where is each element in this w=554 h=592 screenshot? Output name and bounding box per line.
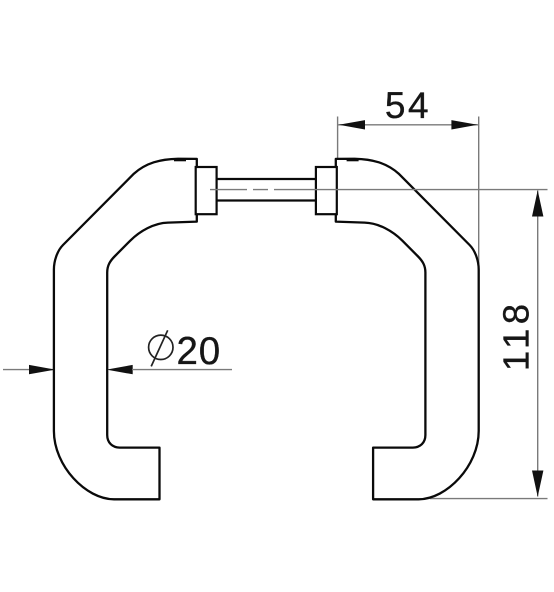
right handle seam tick	[347, 159, 359, 161]
54 dimension arrow right	[451, 120, 477, 129]
118 dimension arrow bottom	[532, 471, 543, 497]
54 dimension line	[338, 124, 478, 126]
54 dimension arrow left	[339, 120, 365, 129]
svg-text:20: 20	[177, 330, 221, 373]
left handle seam tick	[174, 159, 186, 161]
118 bottom extension line	[430, 498, 548, 500]
54 right extension line	[478, 117, 480, 274]
centerline / 118 top extension line	[210, 189, 548, 191]
118 dimension line	[537, 191, 539, 497]
right collar (rose/neck)	[316, 167, 337, 214]
spindle top line	[217, 178, 316, 180]
54 left extension line	[337, 117, 339, 161]
left collar (rose/neck)	[196, 167, 217, 214]
left handle outline	[54, 159, 197, 500]
diameter symbol circle	[149, 335, 173, 359]
svg-text:54: 54	[385, 85, 431, 126]
diameter-20 arrow right (points left at grip right edge)	[107, 365, 133, 374]
diameter-20 arrow left (points right at grip left edge)	[29, 365, 55, 374]
svg-text:118: 118	[496, 299, 537, 371]
diameter-20 dimension line right lead	[132, 369, 232, 371]
118 dimension arrow top	[532, 190, 543, 216]
right handle outline (mirror of left)	[336, 159, 479, 500]
diameter symbol slash	[151, 330, 168, 366]
spindle bottom line	[217, 199, 316, 201]
diameter-20 dimension line left lead	[3, 369, 54, 371]
